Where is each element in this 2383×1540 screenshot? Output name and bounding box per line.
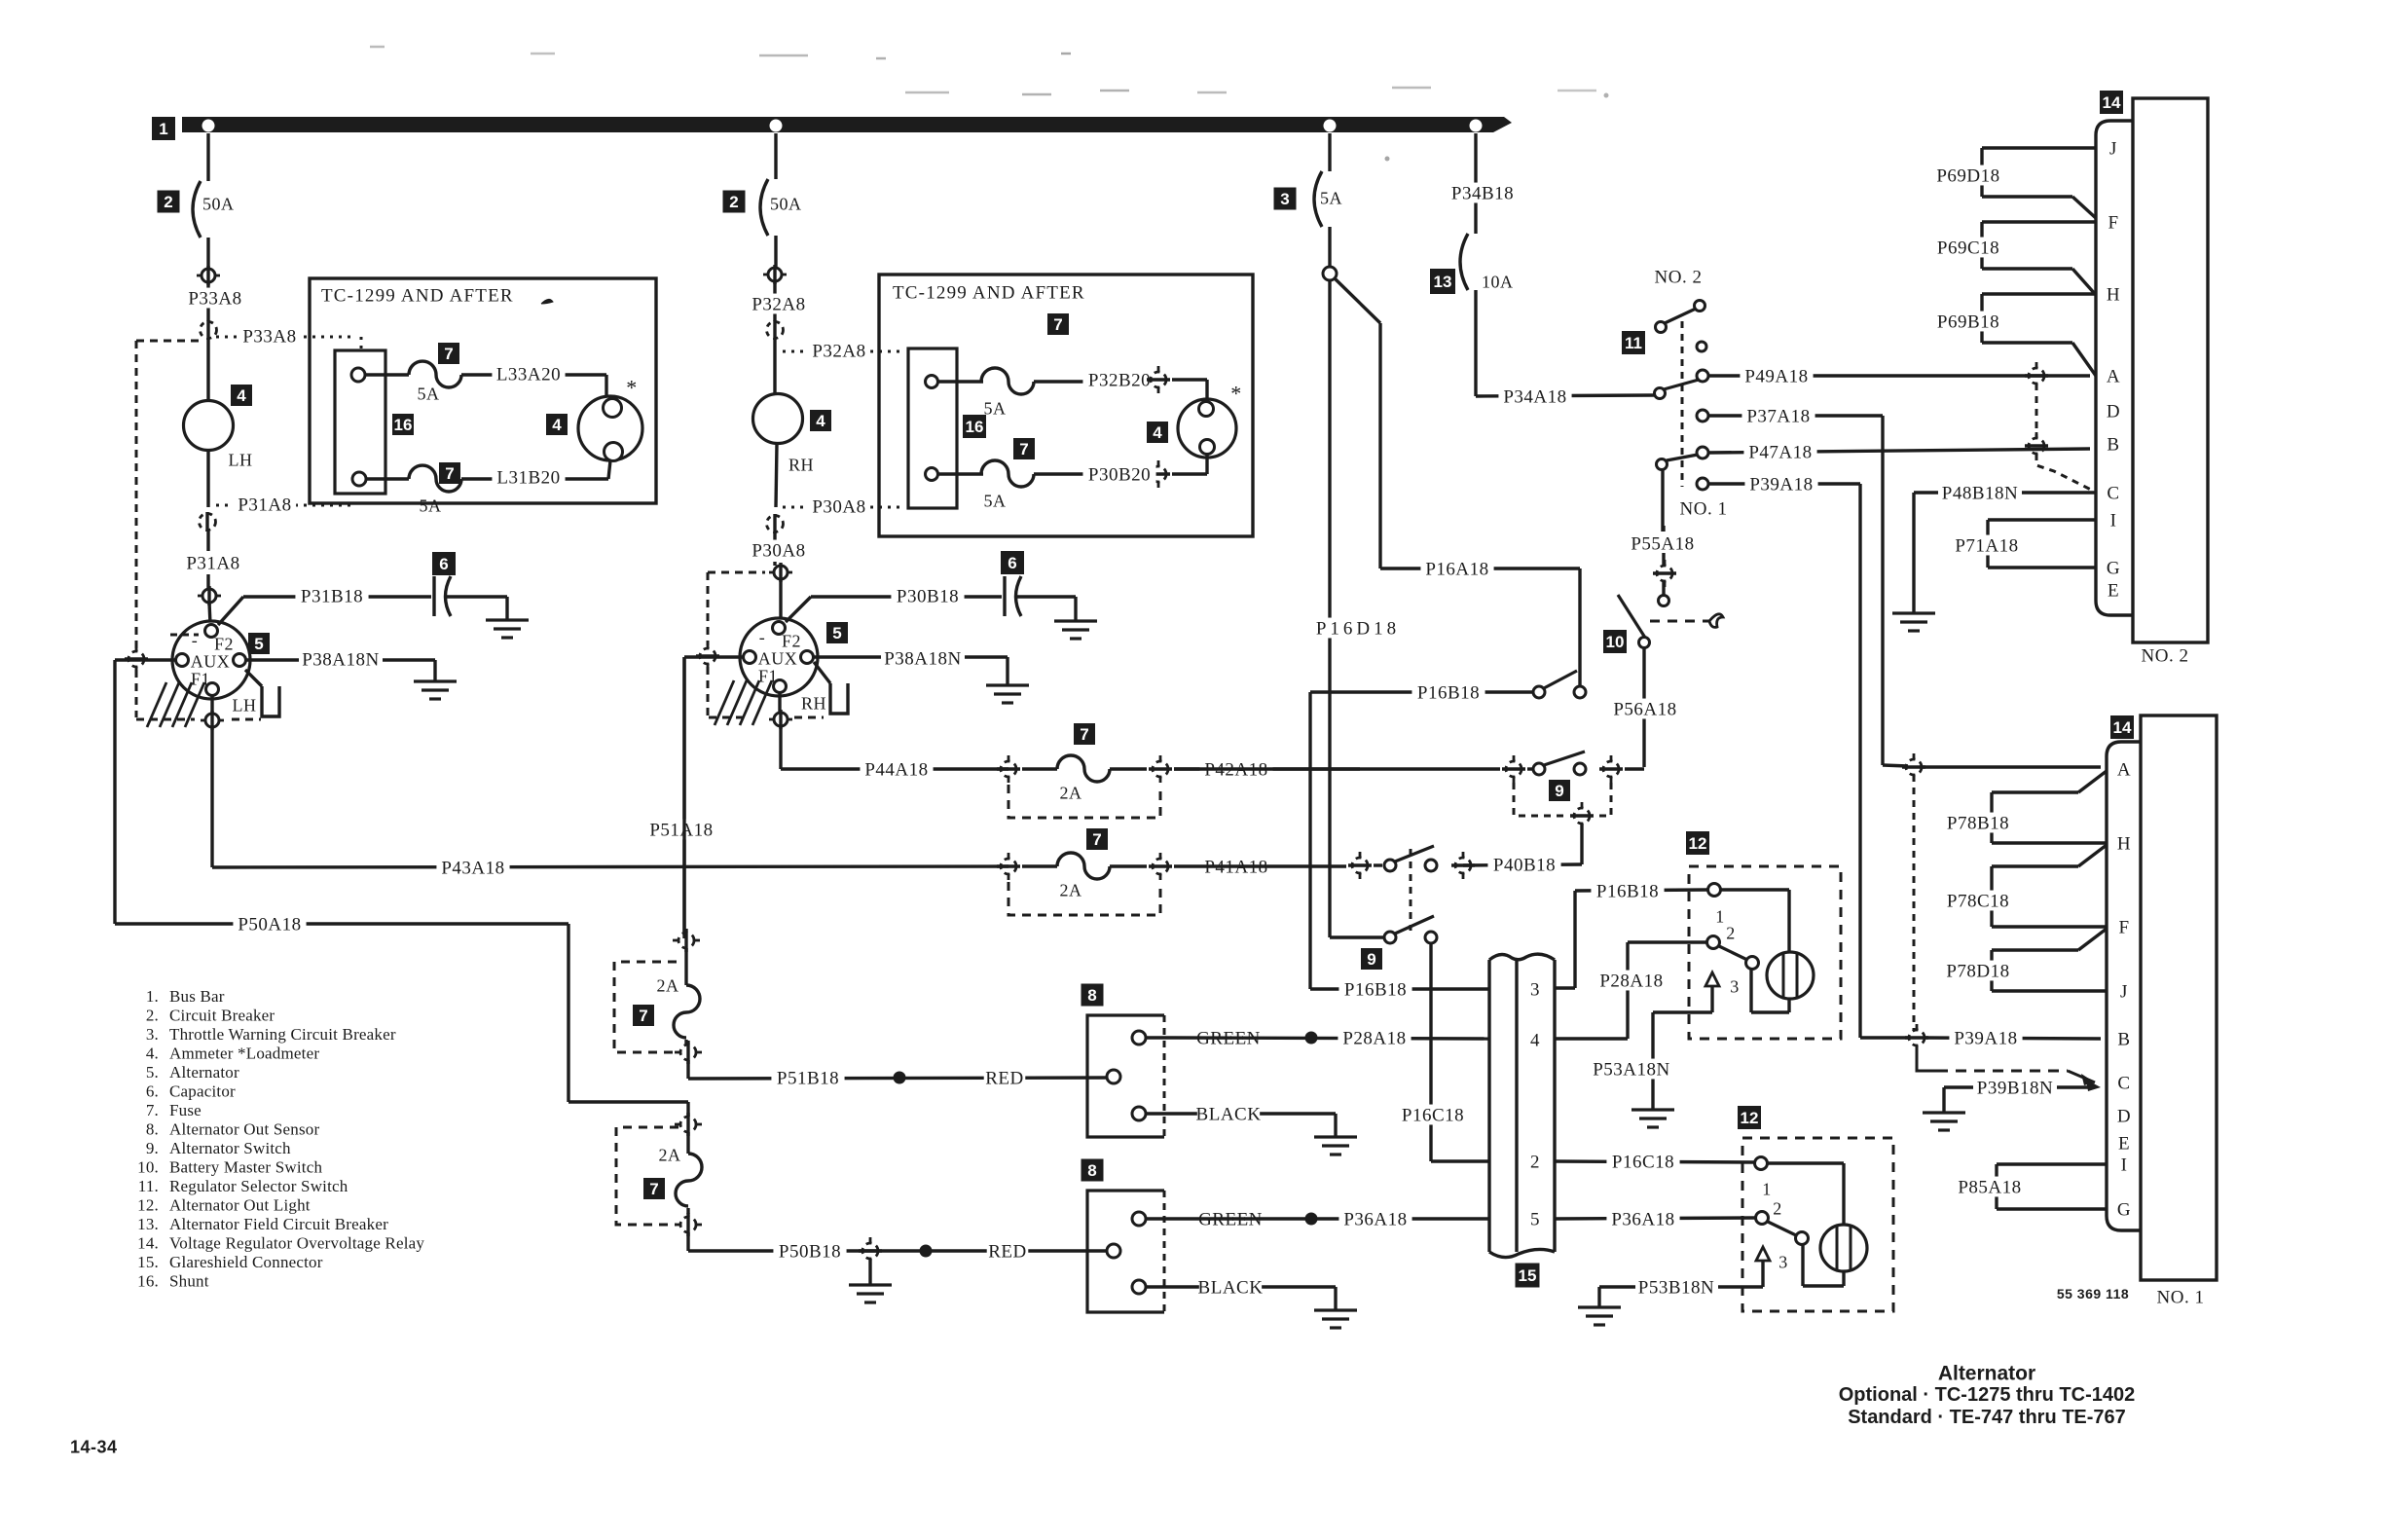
svg-text:4: 4 [816,412,825,430]
svg-text:*: * [1230,382,1242,406]
svg-text:11.: 11. [138,1177,159,1195]
svg-text:F2: F2 [214,634,234,653]
svg-text:Capacitor: Capacitor [169,1082,236,1100]
svg-text:7: 7 [444,345,453,363]
svg-text:*: * [626,376,638,400]
svg-text:55 369 118: 55 369 118 [2057,1286,2129,1302]
svg-text:I: I [2121,1155,2128,1176]
svg-text:P32A8: P32A8 [752,295,805,315]
svg-text:P16D18: P16D18 [1316,619,1400,640]
svg-text:P69B18: P69B18 [1937,312,1999,333]
svg-text:TC-1299 AND AFTER: TC-1299 AND AFTER [321,286,514,307]
svg-text:P39B18N: P39B18N [1977,1079,2053,1099]
svg-text:5: 5 [832,624,841,642]
svg-text:P33A8: P33A8 [242,327,296,348]
svg-text:9: 9 [1367,950,1375,969]
svg-text:P32B20: P32B20 [1088,371,1151,391]
svg-text:50A: 50A [202,194,235,213]
svg-text:E: E [2108,581,2119,602]
svg-text:F2: F2 [782,631,801,650]
svg-text:15.: 15. [137,1253,159,1271]
svg-text:Alternator Out Light: Alternator Out Light [169,1195,311,1214]
svg-text:Alternator: Alternator [169,1063,239,1082]
svg-text:AUX: AUX [758,648,798,668]
svg-text:14.: 14. [137,1233,159,1252]
svg-text:2A: 2A [659,1145,681,1164]
svg-text:4.: 4. [146,1044,159,1062]
svg-text:6: 6 [439,555,448,573]
svg-text:16: 16 [394,416,413,434]
svg-text:Alternator Field Circuit Break: Alternator Field Circuit Breaker [169,1215,388,1233]
svg-text:BLACK: BLACK [1198,1278,1264,1299]
svg-text:LH: LH [229,450,253,469]
svg-text:-: - [759,627,766,646]
svg-text:P31A8: P31A8 [238,495,291,516]
svg-text:Circuit Breaker: Circuit Breaker [169,1006,275,1024]
svg-text:2.: 2. [146,1006,159,1024]
svg-text:P49A18: P49A18 [1744,367,1808,387]
svg-text:Ammeter *Loadmeter: Ammeter *Loadmeter [169,1044,319,1062]
svg-text:RH: RH [801,693,826,713]
svg-text:G: G [2107,559,2120,579]
svg-text:P69D18: P69D18 [1936,166,1999,187]
svg-text:14: 14 [2113,718,2132,737]
svg-text:P31B18: P31B18 [301,587,363,607]
svg-text:7: 7 [639,1007,647,1025]
svg-text:7: 7 [1092,830,1101,849]
svg-text:F: F [2118,918,2129,938]
svg-text:Voltage Regulator Overvoltage: Voltage Regulator Overvoltage Relay [169,1233,424,1252]
svg-text:2: 2 [729,193,738,211]
svg-text:P28A18: P28A18 [1599,972,1663,992]
svg-text:P39A18: P39A18 [1749,475,1813,495]
svg-text:P30B20: P30B20 [1088,465,1151,486]
svg-text:P51B18: P51B18 [777,1069,839,1089]
svg-text:Alternator: Alternator [1938,1362,2035,1384]
svg-text:5.: 5. [146,1063,159,1082]
svg-text:P50B18: P50B18 [779,1242,841,1263]
svg-text:5A: 5A [1320,188,1342,207]
svg-text:6.: 6. [146,1082,159,1100]
svg-text:NO. 2: NO. 2 [1655,268,1703,288]
svg-text:7: 7 [445,464,454,483]
svg-text:D: D [2117,1107,2131,1127]
svg-text:16.: 16. [137,1271,159,1290]
svg-text:4: 4 [1530,1031,1540,1051]
svg-text:AUX: AUX [191,651,231,671]
svg-text:H: H [2117,834,2131,855]
svg-text:NO. 2: NO. 2 [2142,646,2189,667]
svg-text:2: 2 [1773,1198,1782,1218]
svg-text:P31A8: P31A8 [186,554,239,574]
svg-text:7: 7 [1080,725,1088,744]
svg-text:2A: 2A [1060,880,1082,899]
svg-text:7.: 7. [146,1101,159,1119]
svg-text:B: B [2117,1030,2130,1050]
svg-text:L33A20: L33A20 [496,365,561,385]
svg-text:D: D [2107,402,2120,422]
svg-text:P53A18N: P53A18N [1593,1060,1670,1081]
svg-text:P48B18N: P48B18N [1942,484,2018,504]
svg-text:P16C18: P16C18 [1402,1106,1464,1126]
svg-text:5: 5 [254,635,263,653]
svg-text:12: 12 [1741,1109,1759,1127]
svg-text:BLACK: BLACK [1196,1105,1262,1125]
svg-text:P37A18: P37A18 [1746,407,1810,427]
svg-text:3.: 3. [146,1025,159,1044]
svg-text:7: 7 [1053,315,1062,334]
svg-text:C: C [2117,1074,2130,1094]
svg-text:16: 16 [966,418,984,436]
svg-text:P56A18: P56A18 [1613,700,1676,720]
svg-text:7: 7 [649,1180,658,1198]
svg-text:P38A18N: P38A18N [884,649,962,670]
svg-text:50A: 50A [770,194,802,213]
svg-text:14: 14 [2103,93,2121,112]
svg-text:1: 1 [1762,1179,1772,1198]
svg-text:5: 5 [1530,1210,1540,1230]
svg-text:P78B18: P78B18 [1947,814,2009,834]
svg-text:1.: 1. [146,987,159,1006]
svg-text:2A: 2A [657,975,679,995]
svg-text:3: 3 [1730,976,1740,996]
svg-text:5A: 5A [420,495,442,515]
svg-text:5A: 5A [418,384,440,403]
svg-text:P28A18: P28A18 [1342,1029,1406,1049]
svg-text:P78D18: P78D18 [1946,962,2009,982]
svg-text:3: 3 [1530,980,1540,1001]
svg-text:12.: 12. [137,1195,159,1214]
svg-text:9.: 9. [146,1139,159,1157]
svg-text:E: E [2118,1134,2130,1155]
svg-text:Alternator Switch: Alternator Switch [169,1139,291,1157]
svg-text:6: 6 [1008,554,1016,572]
svg-text:7: 7 [1019,440,1028,458]
svg-text:Battery Master Switch: Battery Master Switch [169,1157,322,1176]
svg-text:P36A18: P36A18 [1611,1210,1674,1230]
svg-text:2: 2 [1726,923,1736,942]
svg-text:L31B20: L31B20 [496,468,560,489]
svg-text:5A: 5A [984,398,1007,418]
svg-text:P69C18: P69C18 [1937,238,1999,259]
svg-text:P34A18: P34A18 [1503,387,1566,408]
svg-text:P16C18: P16C18 [1612,1153,1674,1173]
svg-text:4: 4 [237,386,246,405]
svg-text:8: 8 [1087,986,1096,1005]
svg-text:P30A8: P30A8 [812,497,865,518]
svg-text:P55A18: P55A18 [1631,534,1694,555]
svg-text:5A: 5A [984,491,1007,510]
svg-text:Fuse: Fuse [169,1101,202,1119]
svg-text:NO. 1: NO. 1 [1680,499,1728,520]
svg-text:Throttle Warning Circuit Break: Throttle Warning Circuit Breaker [169,1025,396,1044]
svg-text:P40B18: P40B18 [1493,856,1556,876]
svg-text:P78C18: P78C18 [1947,892,2009,912]
svg-text:P38A18N: P38A18N [302,650,380,671]
svg-text:14-34: 14-34 [70,1437,118,1456]
svg-text:P16B18: P16B18 [1596,882,1659,902]
svg-text:P71A18: P71A18 [1955,536,2018,557]
svg-text:I: I [2110,511,2117,532]
svg-text:2: 2 [1530,1153,1540,1173]
svg-text:P53B18N: P53B18N [1638,1278,1714,1299]
svg-text:TC-1299 AND AFTER: TC-1299 AND AFTER [893,283,1085,304]
svg-text:P44A18: P44A18 [864,760,928,781]
svg-text:P33A8: P33A8 [188,289,241,310]
svg-text:P50A18: P50A18 [238,915,301,935]
svg-text:LH: LH [233,695,257,715]
svg-text:P30B18: P30B18 [897,587,959,607]
svg-text:C: C [2107,484,2119,504]
svg-text:Bus Bar: Bus Bar [169,987,225,1006]
svg-text:Standard · TE-747 thru TE-767: Standard · TE-747 thru TE-767 [1848,1407,2126,1428]
svg-text:NO. 1: NO. 1 [2157,1288,2205,1308]
svg-text:3: 3 [1778,1252,1788,1271]
svg-text:13.: 13. [137,1215,159,1233]
svg-text:Optional · TC-1275 thru TC-140: Optional · TC-1275 thru TC-1402 [1839,1384,2136,1406]
svg-text:10A: 10A [1482,272,1514,291]
svg-text:3: 3 [1280,190,1289,208]
svg-text:10.: 10. [137,1157,159,1176]
svg-text:P30A8: P30A8 [752,541,805,562]
svg-text:P47A18: P47A18 [1748,443,1812,463]
svg-text:P34B18: P34B18 [1451,184,1514,204]
svg-text:13: 13 [1434,273,1452,291]
svg-text:A: A [2117,760,2131,781]
svg-text:J: J [2120,982,2128,1003]
svg-text:9: 9 [1555,782,1563,800]
svg-text:2: 2 [164,193,172,211]
svg-text:4: 4 [1153,423,1162,442]
svg-text:Alternator Out Sensor: Alternator Out Sensor [169,1119,319,1138]
svg-text:H: H [2107,285,2120,306]
svg-text:B: B [2107,435,2119,456]
svg-text:P85A18: P85A18 [1958,1178,2021,1198]
svg-text:A: A [2107,367,2120,387]
svg-text:1: 1 [1715,906,1725,926]
svg-text:P36A18: P36A18 [1343,1210,1407,1230]
svg-text:Regulator Selector Switch: Regulator Selector Switch [169,1177,348,1195]
svg-text:4: 4 [552,416,562,434]
svg-text:G: G [2117,1200,2131,1221]
svg-text:Shunt: Shunt [169,1271,209,1290]
svg-text:-: - [192,630,199,649]
svg-text:P39A18: P39A18 [1954,1029,2017,1049]
svg-text:12: 12 [1689,834,1707,853]
svg-text:8.: 8. [146,1119,159,1138]
svg-text:P51A18: P51A18 [649,821,713,841]
svg-text:F1: F1 [191,669,210,688]
svg-text:Glareshield Connector: Glareshield Connector [169,1253,323,1271]
svg-text:8: 8 [1087,1161,1096,1180]
svg-text:P16B18: P16B18 [1344,980,1407,1001]
svg-text:15: 15 [1519,1266,1537,1285]
svg-text:2A: 2A [1060,783,1082,802]
svg-text:F: F [2108,213,2118,234]
svg-text:RED: RED [988,1242,1027,1263]
svg-text:F1: F1 [758,666,778,685]
svg-text:RH: RH [788,455,814,474]
svg-text:11: 11 [1625,334,1642,352]
svg-text:P43A18: P43A18 [441,859,504,879]
svg-text:J: J [2109,139,2117,160]
svg-text:P32A8: P32A8 [812,342,865,362]
svg-text:1: 1 [159,120,167,138]
svg-text:P16A18: P16A18 [1425,560,1488,580]
svg-text:P16B18: P16B18 [1417,683,1480,704]
svg-text:RED: RED [985,1069,1024,1089]
svg-text:10: 10 [1606,633,1625,651]
